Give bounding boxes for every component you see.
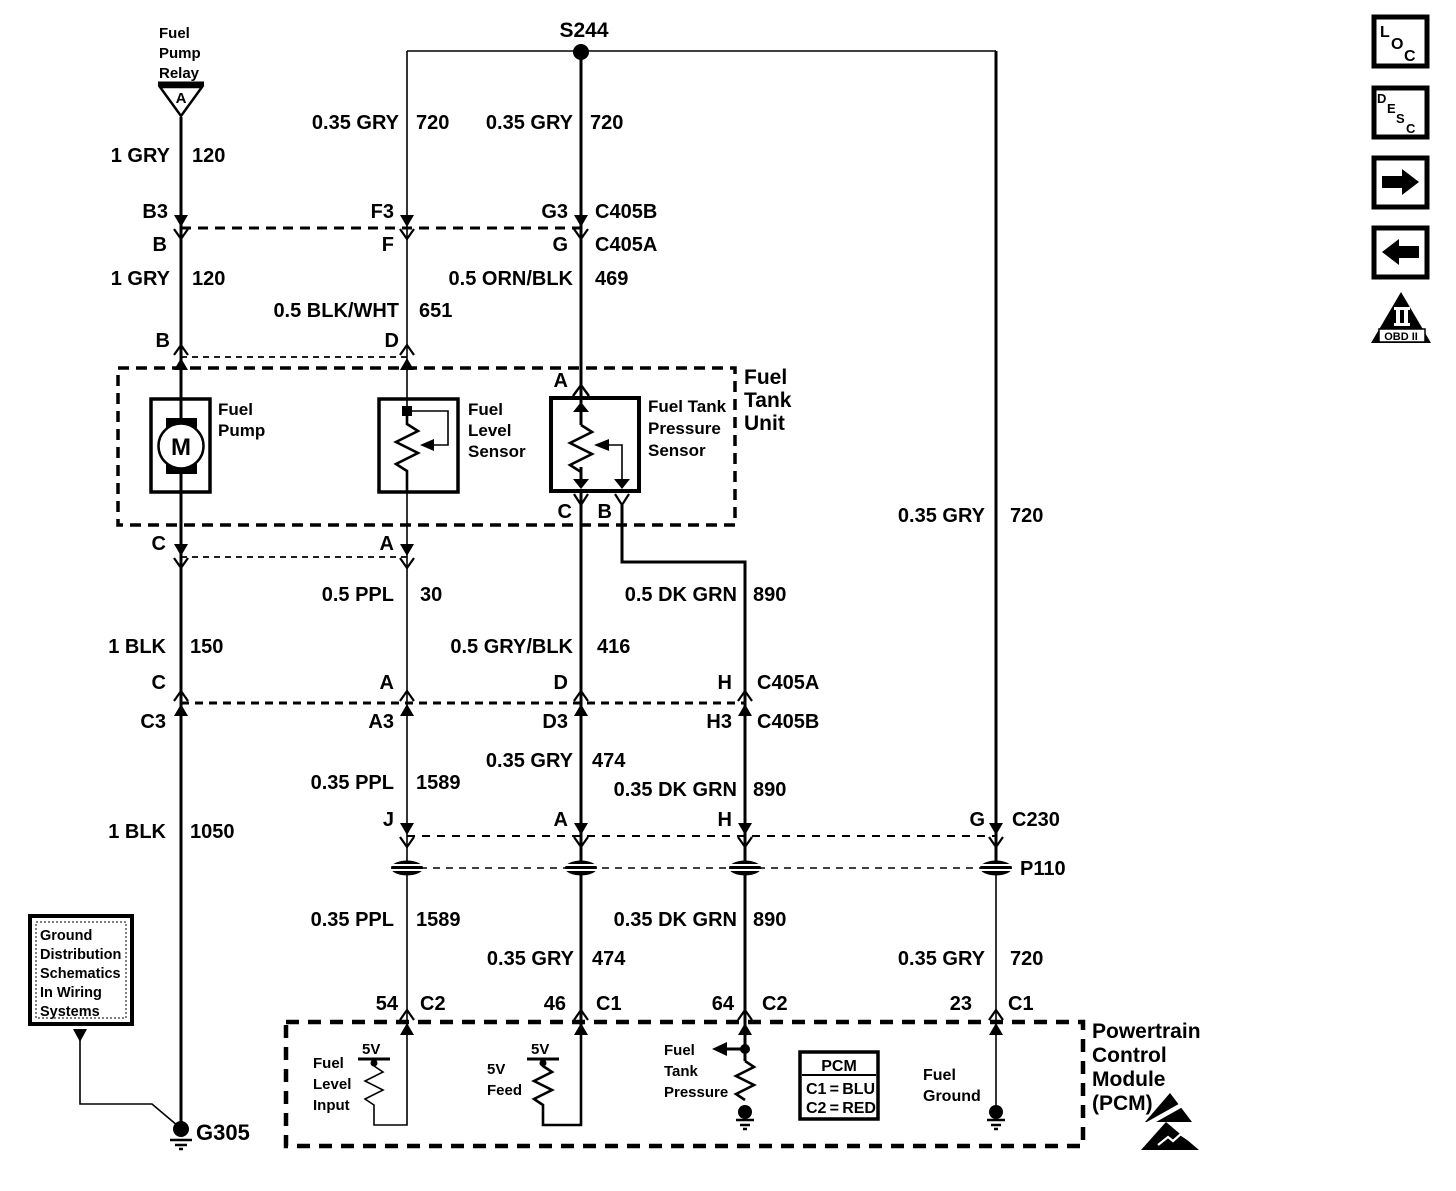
connector pin H on W4 [718,809,752,847]
icon LOC button [1374,17,1427,66]
svg-text:Input: Input [313,1097,350,1114]
svg-text:Powertrain: Powertrain [1092,1020,1201,1043]
connector pin A below tank unit on W2 [380,533,414,568]
wire label 1 BLK 1050 on W1 [108,821,234,843]
fuel ground node inside PCM [923,1067,1005,1129]
svg-text:C3: C3 [140,711,166,733]
wire label 0.35 GRY 720 on W2 [312,112,449,134]
svg-text:H3: H3 [706,711,732,733]
svg-text:Tank: Tank [664,1063,699,1080]
fuel level sensor (potentiometer) [379,399,526,492]
wire label 1 GRY 120 upper on W1 [111,145,226,167]
svg-text:30: 30 [420,584,442,606]
wire label 0.35 GRY 720 lower on W5 [898,948,1043,970]
grommet P110 on W4 [729,861,761,876]
svg-text:D: D [554,672,568,694]
svg-text:Ground: Ground [923,1088,981,1105]
svg-text:G: G [552,234,568,256]
svg-text:5V: 5V [487,1061,505,1078]
wire label 0.5 BLK/WHT 651 on W2 [273,300,452,322]
connector pin C below tank unit on W1 [152,533,188,568]
svg-text:C2 = RED: C2 = RED [806,1100,876,1117]
svg-text:A: A [380,533,394,555]
svg-text:416: 416 [597,636,630,658]
ground inside PCM at fuel tank pressure [736,1120,754,1129]
resistor fuel level input pull-up [313,1030,407,1125]
svg-text:Fuel: Fuel [744,366,787,389]
svg-text:E: E [1387,101,1396,116]
wire W3 5V reference circuit [580,51,583,1030]
svg-text:(PCM): (PCM) [1092,1092,1153,1115]
wire label 0.35 PPL 1589 on W2 [311,772,461,794]
svg-text:G3: G3 [541,201,568,223]
ESD warning symbol [1139,1093,1199,1150]
svg-text:0.5 PPL: 0.5 PPL [322,584,394,606]
svg-text:46: 46 [544,993,566,1015]
svg-text:0.5 DK GRN: 0.5 DK GRN [625,584,737,606]
svg-text:64: 64 [712,993,735,1015]
svg-text:0.35 GRY: 0.35 GRY [898,505,986,527]
svg-text:C2: C2 [762,993,788,1015]
wire W5 sensor ground circuit [995,51,998,868]
svg-text:Fuel: Fuel [313,1055,344,1072]
svg-text:Pressure: Pressure [648,419,721,438]
svg-text:720: 720 [590,112,623,134]
svg-text:Fuel: Fuel [159,25,190,42]
svg-text:720: 720 [1010,948,1043,970]
svg-text:C: C [1404,48,1416,65]
ground distribution reference callout box [30,916,132,1024]
svg-text:B3: B3 [142,201,168,223]
svg-text:OBD II: OBD II [1384,331,1418,343]
svg-text:G305: G305 [196,1120,250,1145]
svg-text:120: 120 [192,268,225,290]
wire label 0.5 PPL 30 on W2 [322,584,443,606]
inline connector line below tank unit [181,556,407,558]
grommet P110 on W2 [391,861,423,876]
svg-text:469: 469 [595,268,628,290]
svg-text:Fuel Tank: Fuel Tank [648,397,727,416]
wire label 0.35 GRY 474 lower on W3 [487,948,626,970]
svg-text:A: A [380,672,394,694]
svg-text:B: B [153,234,167,256]
svg-text:C2: C2 [420,993,446,1015]
svg-text:S: S [1396,111,1405,126]
svg-text:D: D [385,330,399,352]
wire W1 fuel pump relay to G305 [180,117,183,1128]
svg-text:Fuel: Fuel [218,400,253,419]
wire label 0.35 GRY 474 on W3 [486,750,626,772]
icon DESC button [1374,88,1427,137]
connector line C405A/C405B upper [181,227,581,230]
svg-text:23: 23 [950,993,972,1015]
svg-text:C405B: C405B [757,711,819,733]
PCM connector legend box [800,1052,878,1119]
svg-text:C1: C1 [1008,993,1034,1015]
svg-text:1 BLK: 1 BLK [108,821,166,843]
resistor fuel tank pressure input [664,1035,754,1119]
svg-text:0.5 BLK/WHT: 0.5 BLK/WHT [273,300,399,322]
connector pin D into tank unit on W2 [385,330,414,370]
svg-text:Feed: Feed [487,1082,522,1099]
fuel pump M1 motor [151,399,265,492]
svg-text:C1 = BLU: C1 = BLU [806,1081,875,1098]
wire label 0.5 DK GRN 890 on W4 [625,584,787,606]
svg-text:C: C [152,672,166,694]
wire label 0.35 GRY 720 on W5 [898,505,1043,527]
svg-text:0.5 ORN/BLK: 0.5 ORN/BLK [449,268,574,290]
svg-text:1589: 1589 [416,772,461,794]
svg-text:720: 720 [416,112,449,134]
svg-text:Module: Module [1092,1068,1166,1091]
wire W5 lower segment [995,868,997,1110]
svg-text:150: 150 [190,636,223,658]
connector line C230 [407,835,996,837]
svg-text:D: D [1377,91,1386,106]
svg-text:890: 890 [753,779,786,801]
svg-text:P110: P110 [1020,858,1066,880]
icon back arrow button [1374,228,1427,277]
splice S244 top bus wire [407,50,996,52]
grommet line P110 [407,858,1066,880]
node S244 [559,19,608,60]
svg-text:0.35 GRY: 0.35 GRY [486,112,574,134]
callout arrow to G305 [73,1029,178,1126]
pin C below pressure sensor [558,494,588,523]
svg-text:Unit: Unit [744,412,785,435]
wire label 0.5 ORN/BLK 469 on W3 [449,268,629,290]
svg-text:H: H [718,809,732,831]
svg-text:0.35 PPL: 0.35 PPL [311,909,394,931]
icon OBD II warning triangle [1371,292,1431,343]
svg-text:Schematics: Schematics [40,966,121,982]
svg-text:1 BLK: 1 BLK [108,636,166,658]
svg-text:Fuel: Fuel [664,1042,695,1059]
svg-text:Relay: Relay [159,65,200,82]
svg-text:474: 474 [592,750,626,772]
svg-text:C405B: C405B [595,201,657,223]
wire label 1 GRY 120 lower on W1 [111,268,226,290]
connector pin J on W2 [383,809,414,847]
svg-text:Pump: Pump [218,421,265,440]
svg-text:Ground: Ground [40,928,92,944]
svg-text:1589: 1589 [416,909,461,931]
wire label 0.35 DK GRN 890 lower on W4 [614,909,787,931]
svg-text:Pump: Pump [159,45,201,62]
connector pin A on W3 [554,809,588,847]
connector line C405A/C405B lower [181,702,745,705]
svg-text:Sensor: Sensor [648,441,706,460]
connector pin F3/F on W2 [371,201,414,256]
svg-text:C: C [152,533,166,555]
svg-text:0.35 GRY: 0.35 GRY [898,948,986,970]
svg-text:0.35 GRY: 0.35 GRY [487,948,575,970]
svg-text:H: H [718,672,732,694]
connector pin 64 C2 on W4 at PCM [712,993,788,1035]
wire label 0.35 DK GRN 890 on W4 [614,779,787,801]
svg-text:M: M [171,434,191,461]
svg-text:54: 54 [376,993,399,1015]
grommet P110 on W3 [565,861,597,876]
wire W4 fuel tank pressure signal [622,505,745,1030]
icon forward arrow button [1374,158,1427,207]
svg-text:S244: S244 [559,19,608,42]
svg-text:In Wiring: In Wiring [40,985,102,1001]
svg-text:Fuel: Fuel [923,1067,956,1084]
connector pin D/D3 on W3 [542,672,588,733]
svg-text:5V: 5V [362,1041,380,1058]
svg-text:0.35 GRY: 0.35 GRY [312,112,400,134]
resistor 5V feed [487,1030,581,1125]
svg-text:A: A [554,370,568,392]
svg-text:C405A: C405A [757,672,819,694]
svg-text:J: J [383,809,394,831]
svg-text:Control: Control [1092,1044,1167,1067]
svg-text:0.35 GRY: 0.35 GRY [486,750,574,772]
connector pin H/H3 on W4 [706,672,819,733]
connector pin B3/B on W1 [142,201,188,256]
svg-text:651: 651 [419,300,452,322]
svg-text:890: 890 [753,909,786,931]
grommet P110 on W5 [980,861,1012,876]
svg-text:890: 890 [753,584,786,606]
svg-text:1 GRY: 1 GRY [111,145,171,167]
svg-text:F: F [382,234,394,256]
svg-text:Sensor: Sensor [468,442,526,461]
connector pin 23 C1 on W5 at PCM [950,993,1034,1035]
svg-text:Fuel: Fuel [468,400,503,419]
svg-text:O: O [1391,36,1403,53]
svg-text:5V: 5V [531,1041,549,1058]
svg-text:A: A [176,90,187,107]
svg-text:PCM: PCM [821,1058,857,1075]
connector pin A into pressure sensor on W3 [554,370,589,396]
svg-text:474: 474 [592,948,626,970]
svg-text:L: L [1380,24,1390,41]
wire label 0.5 GRY/BLK 416 on W3 [450,636,630,658]
svg-text:B: B [598,501,612,523]
fuel tank pressure sensor [551,397,727,491]
svg-text:0.5 GRY/BLK: 0.5 GRY/BLK [450,636,573,658]
wire label 0.35 PPL 1589 lower on W2 [311,909,461,931]
connector pin 54 C2 on W2 at PCM [376,993,446,1035]
svg-text:A3: A3 [368,711,394,733]
svg-text:C1: C1 [596,993,622,1015]
svg-text:C230: C230 [1012,809,1060,831]
svg-text:1 GRY: 1 GRY [111,268,171,290]
ground G305 [170,1120,250,1149]
svg-text:C: C [558,501,572,523]
svg-text:0.35 DK GRN: 0.35 DK GRN [614,909,737,931]
wire W2 fuel level circuit [406,51,408,1030]
svg-text:Level: Level [313,1076,351,1093]
connector pin C/C3 on W1 [140,672,188,733]
svg-text:1050: 1050 [190,821,235,843]
svg-text:Distribution: Distribution [40,947,121,963]
connector pin B into tank unit on W1 [156,330,188,370]
powertrain control module dashed box [286,1020,1201,1146]
connector pin G3/G on W3 [541,201,657,256]
wire label 0.35 GRY 720 on W3 [486,112,623,134]
svg-text:B: B [156,330,170,352]
inline connector line at fuel tank unit entry [181,356,407,358]
svg-text:D3: D3 [542,711,568,733]
svg-text:120: 120 [192,145,225,167]
connector pin 46 C1 on W3 at PCM [544,993,622,1035]
connector pin G on W5 [969,809,1059,847]
svg-text:0.35 DK GRN: 0.35 DK GRN [614,779,737,801]
svg-text:F3: F3 [371,201,394,223]
svg-text:C: C [1406,121,1416,136]
svg-text:A: A [554,809,568,831]
svg-text:Pressure: Pressure [664,1084,728,1101]
svg-text:Level: Level [468,421,511,440]
svg-text:720: 720 [1010,505,1043,527]
fuel pump relay triangle A [158,25,204,116]
wire label 1 BLK 150 on W1 [108,636,223,658]
svg-text:0.35 PPL: 0.35 PPL [311,772,394,794]
svg-text:G: G [969,809,985,831]
svg-text:C405A: C405A [595,234,657,256]
pin B below pressure sensor [598,494,629,523]
svg-text:Tank: Tank [744,389,792,412]
svg-text:Systems: Systems [40,1004,100,1020]
fuel tank unit dashed box [118,366,792,525]
connector pin A/A3 on W2 [368,672,414,733]
